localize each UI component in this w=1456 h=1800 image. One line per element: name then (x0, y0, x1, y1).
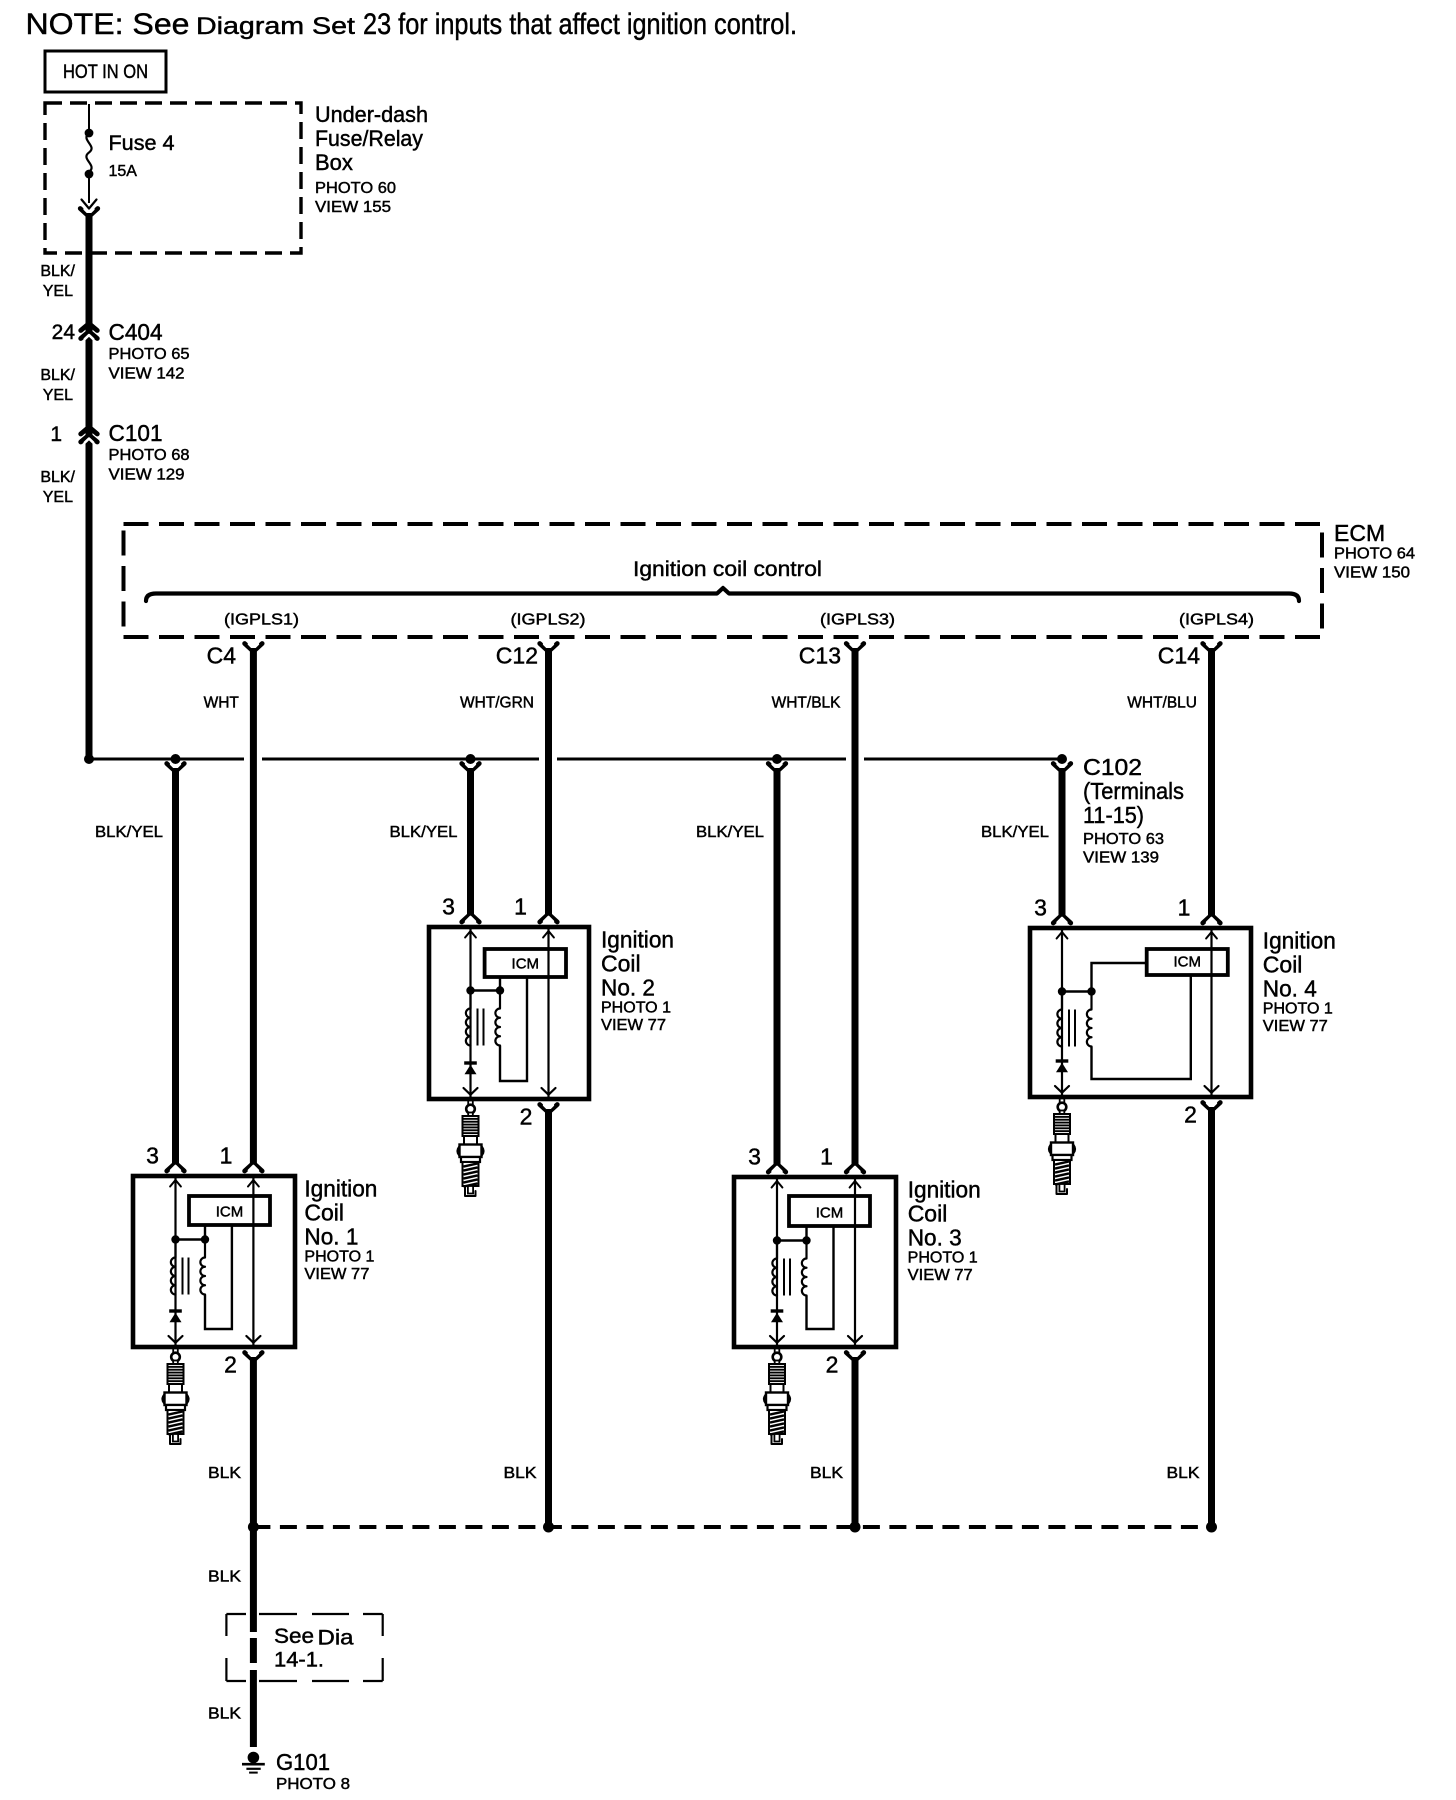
connector C404 symbol (81, 324, 98, 331)
node: bus junction 4 (1206, 1522, 1217, 1533)
wire: branch 3 BLK/YEL (774, 768, 781, 1164)
svg-text:VIEW 129: VIEW 129 (109, 467, 185, 484)
node: branch 2 junction dot (466, 754, 476, 764)
wire: coil internal left pin line (469, 927, 471, 1102)
wire: ICM left-side lead to junction (1092, 963, 1147, 992)
wire: C12 output (WHT/GRN) (545, 648, 552, 915)
coil core lines (477, 1009, 479, 1046)
svg-text:ICM: ICM (512, 956, 540, 973)
under-dash fuse/relay box (45, 103, 301, 253)
coil secondary winding (200, 1240, 205, 1295)
svg-text:Diagram Set: Diagram Set (196, 13, 355, 40)
svg-text:VIEW 139: VIEW 139 (1083, 850, 1159, 867)
connector fork at branch 2 (462, 764, 480, 772)
svg-text:(IGPLS3): (IGPLS3) (820, 612, 895, 629)
spark plug coil 4 (1049, 1099, 1075, 1195)
svg-text:BLK/YEL: BLK/YEL (390, 824, 458, 841)
connector fork coil 3 pin 2 (846, 1353, 864, 1361)
svg-text:VIEW 77: VIEW 77 (908, 1267, 973, 1284)
fuse 4 label (109, 132, 175, 180)
svg-text:14-1.: 14-1. (274, 1649, 324, 1672)
svg-text:WHT: WHT (204, 695, 240, 712)
connector fork at branch 1 (167, 764, 185, 772)
svg-text:3: 3 (1034, 895, 1047, 921)
svg-text:YEL: YEL (43, 489, 73, 506)
wire: C13 output (WHT/BLK) (852, 648, 859, 1164)
wire: branch 1 BLK/YEL (172, 768, 179, 1164)
connector fork coil 4 pin 3 (1053, 915, 1071, 923)
svg-text:1: 1 (1178, 895, 1191, 921)
svg-text:Coil: Coil (908, 1201, 948, 1227)
spark plug coil 2 (458, 1101, 484, 1197)
svg-text:2: 2 (1184, 1102, 1197, 1128)
svg-text:1: 1 (820, 1144, 833, 1170)
svg-text:Box: Box (315, 150, 353, 175)
svg-text:Fuse 4: Fuse 4 (109, 132, 175, 155)
wire: ground bus (dashed) (253, 1525, 1211, 1529)
wire: fuse output (88, 174, 90, 203)
ignition coil No. 2 box (429, 927, 589, 1099)
svg-text:Coil: Coil (304, 1200, 344, 1226)
spark plug coil 1 (163, 1349, 189, 1445)
svg-text:15A: 15A (109, 163, 138, 180)
arrowhead into connector (82, 200, 97, 209)
connector fork at ECM output C4 (245, 644, 263, 652)
wire: BLK/YEL distribution line (89, 758, 1062, 761)
wire: coil internal left pin line (174, 1176, 176, 1350)
ignition coil No. 4 label (1263, 928, 1336, 1036)
diode (464, 1061, 477, 1064)
svg-text:24: 24 (52, 321, 76, 344)
svg-text:BLK/YEL: BLK/YEL (981, 824, 1049, 841)
svg-text:BLK/YEL: BLK/YEL (95, 824, 163, 841)
ignition coil No. 1 label (304, 1176, 377, 1284)
HOT IN ON box (45, 51, 166, 92)
connector fork coil 2 pin 2 (540, 1105, 558, 1113)
svg-text:1: 1 (514, 894, 527, 920)
wire: BLK through See Dia box (dashed) (250, 1638, 257, 1663)
svg-text:C101: C101 (109, 420, 163, 446)
connector fork coil 3 pin 3 (768, 1164, 786, 1172)
svg-text:3: 3 (146, 1143, 159, 1169)
svg-text:C13: C13 (799, 643, 841, 669)
connector C101 label (109, 420, 190, 484)
ignition coil No. 3 box (734, 1177, 896, 1347)
ICM box (189, 1196, 270, 1225)
connector C101 symbol (81, 427, 98, 434)
wire: coil internal right pin line (252, 1176, 254, 1347)
svg-text:ICM: ICM (1174, 954, 1202, 971)
wire: ICM to junction stub (805, 1226, 807, 1241)
svg-text:(IGPLS4): (IGPLS4) (1179, 612, 1254, 629)
coil secondary winding (802, 1241, 807, 1296)
See Dia 14-1 reference box (226, 1614, 382, 1681)
wire: coil 1 pin 2 BLK (250, 1357, 257, 1530)
svg-text:Ignition: Ignition (601, 927, 674, 953)
svg-text:BLK/: BLK/ (40, 367, 75, 384)
wire: coil internal left pin line (1061, 928, 1063, 1100)
wire: secondary to ICM loop (807, 1226, 834, 1329)
ignition coil No. 4 box (1030, 928, 1251, 1097)
ignition coil No. 3 label (908, 1177, 981, 1285)
svg-text:C4: C4 (207, 643, 237, 669)
svg-text:VIEW 77: VIEW 77 (304, 1266, 369, 1283)
fuse 4 element (86, 133, 91, 172)
connector fork at branch 3 (768, 764, 786, 772)
svg-text:PHOTO 1: PHOTO 1 (601, 1000, 671, 1017)
wire: coil internal left pin line (776, 1177, 778, 1350)
svg-text:BLK: BLK (208, 1706, 241, 1723)
ground G101 symbol (242, 1752, 265, 1773)
wire: coil internal right pin line (854, 1177, 856, 1347)
coil primary winding (466, 991, 471, 1046)
svg-text:No. 4: No. 4 (1263, 976, 1317, 1002)
wire: ICM to junction stub (204, 1225, 206, 1240)
connector fork at ECM output C12 (540, 644, 558, 652)
svg-text:No. 1: No. 1 (304, 1224, 358, 1250)
ICM box (789, 1196, 870, 1226)
fuse F4 node dot bottom (85, 170, 94, 179)
node: branch 4 junction dot (1057, 754, 1067, 764)
connector fork coil 4 pin 2 (1203, 1103, 1221, 1111)
diode (771, 1309, 784, 1312)
wire label BLK/YEL (1) (40, 263, 75, 300)
ICM box (1147, 949, 1228, 975)
wire: coil 3 pin 2 BLK (852, 1357, 859, 1530)
coil core lines (783, 1259, 785, 1296)
svg-text:ICM: ICM (216, 1204, 244, 1221)
connector fork coil 1 pin 3 (167, 1163, 185, 1171)
wire: primary junction link (1062, 990, 1092, 992)
svg-text:C102: C102 (1083, 754, 1142, 780)
wire: coil 4 pin 2 BLK (1208, 1107, 1215, 1530)
svg-text:3: 3 (748, 1144, 761, 1170)
under-dash fuse/relay box label (315, 102, 428, 216)
ignition coil No. 1 box (133, 1176, 295, 1347)
wire: secondary to ICM loop (1092, 975, 1191, 1079)
svg-text:(IGPLS2): (IGPLS2) (511, 612, 586, 629)
spark plug coil 3 (764, 1349, 790, 1445)
svg-text:BLK/: BLK/ (40, 263, 75, 280)
svg-text:C14: C14 (1158, 643, 1200, 669)
svg-text:BLK: BLK (208, 1569, 241, 1586)
svg-text:WHT/BLU: WHT/BLU (1127, 695, 1197, 712)
svg-text:PHOTO 64: PHOTO 64 (1334, 546, 1415, 563)
coil core lines (182, 1258, 184, 1295)
svg-text:PHOTO 1: PHOTO 1 (304, 1249, 374, 1266)
wire: C4 output (WHT) (250, 648, 257, 1164)
svg-text:See: See (274, 1625, 314, 1648)
svg-text:WHT/BLK: WHT/BLK (772, 695, 842, 712)
ground G101 label (276, 1749, 350, 1793)
wire: feed into fuse (88, 104, 90, 133)
wire label BLK/YEL (2) (40, 367, 75, 404)
connector fork coil 3 pin 1 (846, 1164, 864, 1172)
connector fork coil 2 pin 3 (462, 914, 480, 922)
svg-text:3: 3 (442, 894, 455, 920)
svg-text:PHOTO 1: PHOTO 1 (908, 1250, 978, 1267)
connector fork at ECM output C13 (846, 644, 864, 652)
svg-text:2: 2 (224, 1352, 237, 1378)
svg-text:2: 2 (826, 1352, 839, 1378)
wire: BLK to ground (upper) (250, 1527, 257, 1632)
ECM label (1334, 520, 1415, 582)
svg-text:YEL: YEL (43, 283, 73, 300)
svg-text:Under-dash: Under-dash (315, 102, 428, 127)
wire: ICM to junction stub (499, 977, 501, 991)
svg-text:Ignition: Ignition (908, 1177, 981, 1203)
wire label BLK/YEL (3) (40, 469, 75, 506)
connector cup at fuse box exit (80, 209, 98, 217)
svg-text:WHT/GRN: WHT/GRN (460, 695, 534, 712)
svg-text:(IGPLS1): (IGPLS1) (224, 612, 299, 629)
ICM box (485, 949, 566, 977)
wire: primary junction link (777, 1239, 807, 1241)
wire: secondary to ICM loop (205, 1225, 232, 1329)
connector fork at ECM output C14 (1203, 644, 1221, 652)
coil primary winding (171, 1240, 176, 1295)
svg-text:G101: G101 (276, 1749, 330, 1775)
node: main feed to distribution line (84, 754, 94, 764)
coil primary winding (772, 1241, 777, 1296)
svg-text:Coil: Coil (1263, 952, 1303, 978)
svg-text:PHOTO 1: PHOTO 1 (1263, 1001, 1333, 1018)
svg-text:BLK: BLK (504, 1465, 537, 1482)
wire: primary junction link (471, 989, 501, 991)
svg-text:VIEW 77: VIEW 77 (601, 1017, 666, 1034)
ECM brace (146, 588, 1299, 601)
svg-text:(Terminals: (Terminals (1083, 778, 1184, 804)
wire: C14 output (WHT/BLU) (1208, 648, 1215, 915)
svg-text:Coil: Coil (601, 951, 641, 977)
node: bus junction 3 (850, 1522, 861, 1533)
wire: branch 2 BLK/YEL (467, 768, 474, 915)
wire: coil 2 pin 2 BLK (545, 1109, 552, 1530)
svg-text:Ignition coil control: Ignition coil control (633, 558, 822, 581)
connector fork coil 1 pin 1 (245, 1163, 263, 1171)
svg-text:BLK/YEL: BLK/YEL (696, 824, 764, 841)
svg-text:VIEW 142: VIEW 142 (109, 366, 185, 383)
svg-text:BLK: BLK (208, 1465, 241, 1482)
svg-text:BLK: BLK (810, 1465, 843, 1482)
See Dia 14-1 label (274, 1625, 354, 1672)
wire: BLK to ground (lower) (250, 1670, 257, 1747)
svg-text:PHOTO 60: PHOTO 60 (315, 180, 396, 197)
svg-text:PHOTO 63: PHOTO 63 (1083, 831, 1164, 848)
svg-text:C404: C404 (109, 319, 163, 345)
ignition coil No. 2 label (601, 927, 674, 1035)
svg-text:ECM: ECM (1334, 520, 1385, 546)
diode (169, 1309, 182, 1312)
connector fork coil 1 pin 2 (245, 1353, 263, 1361)
svg-text:VIEW 155: VIEW 155 (315, 199, 391, 216)
svg-text:PHOTO 65: PHOTO 65 (109, 346, 190, 363)
svg-text:No. 2: No. 2 (601, 975, 655, 1001)
diode (1056, 1059, 1069, 1062)
note text (26, 8, 798, 41)
connector C102 label (1083, 754, 1184, 867)
svg-text:1: 1 (220, 1143, 233, 1169)
svg-text:Dia: Dia (318, 1627, 354, 1650)
svg-text:PHOTO 8: PHOTO 8 (276, 1776, 350, 1793)
wire: coil internal right pin line (547, 927, 549, 1099)
svg-text:VIEW 77: VIEW 77 (1263, 1018, 1328, 1035)
wire: primary junction link (176, 1238, 206, 1240)
wire: branch 4 BLK/YEL (1059, 768, 1066, 915)
svg-text:VIEW 150: VIEW 150 (1334, 565, 1410, 582)
svg-text:ICM: ICM (816, 1205, 844, 1222)
svg-text:NOTE: See: NOTE: See (26, 8, 190, 41)
svg-text:11-15): 11-15) (1083, 802, 1144, 828)
svg-text:PHOTO 68: PHOTO 68 (109, 447, 190, 464)
ECM box (124, 524, 1323, 637)
svg-text:YEL: YEL (43, 387, 73, 404)
svg-text:C12: C12 (496, 643, 538, 669)
svg-text:Ignition: Ignition (304, 1176, 377, 1202)
svg-text:2: 2 (520, 1104, 533, 1130)
svg-text:No. 3: No. 3 (908, 1225, 962, 1251)
fuse F4 node dot top (85, 129, 94, 138)
connector fork at branch 4 (1053, 764, 1071, 772)
node: bus junction 2 (543, 1522, 554, 1533)
coil secondary winding (495, 991, 500, 1046)
node: branch 1 junction dot (171, 754, 181, 764)
coil core lines (1068, 1010, 1070, 1047)
wire: BLK/YEL main feed (86, 213, 93, 759)
connector fork coil 4 pin 1 (1203, 915, 1221, 923)
coil primary winding (1057, 992, 1062, 1047)
svg-text:BLK: BLK (1167, 1465, 1200, 1482)
svg-text:HOT IN ON: HOT IN ON (63, 62, 148, 83)
node: branch 3 junction dot (772, 754, 782, 764)
coil secondary winding (1087, 992, 1092, 1047)
node: bus junction 1 (248, 1522, 259, 1533)
connector fork coil 2 pin 1 (540, 914, 558, 922)
connector C404 label (109, 319, 190, 383)
svg-text:23 for inputs that affect igni: 23 for inputs that affect ignition contr… (363, 8, 797, 41)
svg-text:Fuse/Relay: Fuse/Relay (315, 126, 423, 151)
svg-text:BLK/: BLK/ (40, 469, 75, 486)
wire: secondary to ICM loop (500, 977, 527, 1081)
svg-text:Ignition: Ignition (1263, 928, 1336, 954)
svg-text:1: 1 (50, 423, 62, 446)
wire: coil internal right pin line (1210, 928, 1212, 1097)
